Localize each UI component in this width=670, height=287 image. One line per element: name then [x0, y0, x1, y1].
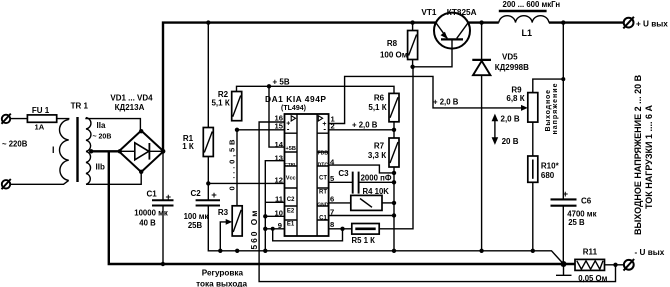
wire top rail right segment (VT1 collector to + output terminal): [468, 21, 499, 23]
svg-text:C2: C2: [191, 189, 202, 198]
transformer TR1 secondary winding IIa: [86, 118, 91, 152]
svg-text:1A: 1A: [35, 123, 45, 132]
svg-text:5,1 К: 5,1 К: [211, 99, 229, 108]
IC right label column: [316, 114, 318, 236]
wire pin 14 drop from +5B: [269, 86, 285, 147]
svg-text:DTC: DTC: [318, 163, 329, 169]
potentiometer R9: [528, 93, 538, 123]
node bridge right corner: [161, 149, 166, 154]
node bridge bottom corner: [139, 170, 143, 174]
R9 wiper arrowhead: [521, 105, 528, 111]
wire VD5 anode down to line A: [481, 75, 483, 251]
node bridge left corner: [118, 149, 122, 153]
wire pin 8 to R5: [329, 228, 352, 230]
svg-text:напряжение: напряжение: [552, 83, 559, 134]
wire R8 bottom stub: [412, 60, 414, 67]
svg-text:E1: E1: [287, 222, 295, 228]
wire R9 top tap to feedback line: [533, 79, 564, 93]
node C1 bottom on minus rail: [161, 262, 165, 266]
wire R10 bottom to line A: [532, 182, 534, 251]
svg-text:Vcc: Vcc: [286, 175, 296, 181]
node R11 right / output sense: [613, 263, 617, 267]
svg-text:+: +: [211, 190, 217, 201]
svg-text:FU 1: FU 1: [32, 106, 50, 115]
resistor R6: [389, 93, 399, 121]
diode bridge VD1-VD4 diamond: [119, 131, 164, 172]
svg-text:C1: C1: [319, 215, 327, 221]
wire input top to fuse: [10, 118, 27, 120]
wire R2 bottom down to R3 top: [236, 130, 238, 206]
svg-text:100 Ом: 100 Ом: [380, 50, 408, 59]
wire pin 9 to bus: [265, 228, 284, 230]
svg-text:~ 220В: ~ 220В: [2, 139, 28, 148]
node R2 bottom / pin15: [235, 128, 239, 132]
svg-text:1 К: 1 К: [182, 142, 194, 151]
svg-text:680: 680: [541, 171, 555, 180]
svg-text:14: 14: [275, 140, 284, 149]
svg-text:GND: GND: [317, 202, 329, 208]
capacitor C1: [152, 200, 174, 205]
wire C3 right plate to ground bus: [359, 181, 394, 183]
terminal output minus: [624, 259, 635, 271]
svg-text:ТОК НАГРУЗКИ 1 .... 6 А: ТОК НАГРУЗКИ 1 .... 6 А: [644, 105, 654, 209]
svg-text:5,1 К: 5,1 К: [368, 103, 386, 112]
wire pin 1 up over to R9 wiper: [329, 76, 524, 123]
svg-text:R8: R8: [387, 39, 398, 48]
svg-text:(TL494): (TL494): [281, 105, 306, 112]
wire VD5 cathode from rail: [481, 23, 483, 60]
wire R5 right to VT1 base line: [379, 67, 413, 229]
svg-text:6: 6: [330, 195, 334, 204]
svg-text:3,3 К: 3,3 К: [368, 151, 386, 160]
svg-text:Регуровка: Регуровка: [202, 268, 244, 277]
wire pin 5 to C3: [329, 181, 352, 183]
svg-text:10000 мк: 10000 мк: [134, 209, 168, 218]
node pin10 bus: [263, 214, 267, 218]
IC pin numbers right: [330, 115, 336, 230]
node top rail R1 tap: [206, 20, 210, 24]
svg-text:+ 2,0 В: + 2,0 В: [352, 121, 378, 130]
wire base junction to VT1 base: [413, 49, 452, 67]
svg-text:CTRL: CTRL: [285, 162, 297, 167]
svg-text:10: 10: [275, 209, 283, 218]
svg-text:R7: R7: [374, 142, 385, 151]
wire bottom minus rail (center tap down and across to R11): [92, 150, 120, 152]
node top rail VD5 tap: [479, 20, 483, 24]
wire pin 4 to ground bus: [329, 165, 394, 173]
capacitor C2: [196, 200, 220, 205]
wire C6 bottom to main junction: [562, 206, 564, 264]
wire IIa top to bridge AC1: [86, 118, 140, 130]
wire pin 2 to R6/R7 divider: [329, 129, 394, 131]
svg-text:E2: E2: [287, 209, 295, 215]
terminal output plus: [623, 17, 634, 29]
svg-text:9: 9: [278, 221, 282, 230]
svg-text:C3: C3: [338, 169, 349, 178]
node U loop right on pin8 wire: [340, 227, 344, 231]
shunt resistor R11: [575, 259, 605, 270]
node R4 ground: [392, 201, 396, 205]
node U loop left: [271, 227, 275, 231]
svg-text:+ U вых: + U вых: [636, 19, 668, 28]
svg-text:+ 2,0 В: + 2,0 В: [433, 98, 459, 107]
svg-text:2000 пФ: 2000 пФ: [361, 174, 392, 183]
svg-text:R4 10K: R4 10K: [363, 187, 390, 196]
wire C2 top stub: [207, 183, 209, 200]
svg-text:R5 1 К: R5 1 К: [352, 236, 376, 245]
transformer TR1 secondary winding IIb: [86, 151, 91, 184]
IC left cell labels: [285, 146, 297, 228]
svg-text:+: +: [166, 192, 172, 203]
svg-text:6,8 К: 6,8 К: [506, 94, 524, 103]
node pin7 ground: [392, 213, 396, 217]
node R7 bottom / pin4: [392, 171, 396, 175]
svg-text:R3: R3: [218, 208, 229, 217]
svg-text:C2: C2: [287, 197, 295, 203]
transformer TR1 primary winding I: [60, 120, 69, 181]
node line A IC ground bus: [392, 249, 396, 253]
IC comparator symbols: [286, 116, 326, 134]
IC cell dividers: [285, 133, 329, 220]
wire top rail after L1: [549, 21, 624, 23]
svg-text:IIa: IIa: [97, 121, 106, 130]
svg-text:20 В: 20 В: [502, 137, 519, 146]
svg-text:I: I: [52, 145, 55, 155]
wire top rail left segment (bridge + to VT1 emitter): [163, 23, 436, 152]
node +5B pin14 tap: [267, 84, 271, 88]
resistor R4: [351, 195, 382, 210]
svg-text:-: -: [287, 124, 290, 133]
wire pin 10 to bus: [265, 215, 284, 217]
IC left label column: [296, 114, 298, 236]
svg-text:TR 1: TR 1: [71, 102, 89, 111]
svg-text:25 В: 25 В: [568, 218, 585, 227]
transformer TR1 core: [76, 117, 78, 182]
voltage range double arrow: [492, 114, 499, 145]
wire fuse to primary top: [57, 119, 69, 120]
svg-text:R6: R6: [374, 94, 385, 103]
node top rail feedback/C6 tap: [561, 20, 565, 24]
svg-text:VD1 ... VD4: VD1 ... VD4: [110, 94, 153, 103]
svg-text:7: 7: [330, 207, 334, 216]
terminal input bottom: [2, 179, 11, 189]
svg-text:200 ... 600 мкГн: 200 ... 600 мкГн: [502, 0, 560, 9]
wire pin 6 to R4: [329, 202, 351, 204]
svg-text:-: -: [323, 125, 326, 134]
svg-text:КТ825А: КТ825А: [447, 8, 477, 17]
svg-text:25В: 25В: [188, 221, 203, 230]
wire pin 15 to R2 bottom: [237, 129, 285, 131]
inductor L1: [499, 11, 549, 23]
wire R1 bottom to Vcc node: [207, 157, 209, 184]
node line A R10 bottom: [531, 249, 535, 253]
diode VD5 KD2998V: [472, 60, 491, 75]
IC right cell labels: [317, 151, 329, 222]
svg-text:ВЫХОДНОЕ НАПРЯЖЕНИЕ 2 ... 20: ВЫХОДНОЕ НАПРЯЖЕНИЕ 2 ... 20 В: [633, 74, 643, 235]
svg-text:тока выхода: тока выхода: [196, 280, 247, 287]
svg-text:C6: C6: [581, 196, 592, 205]
svg-text:100 мк: 100 мк: [184, 212, 209, 221]
svg-text:13: 13: [275, 153, 283, 162]
resistor R7: [389, 138, 399, 167]
svg-text:+5B: +5B: [285, 146, 295, 152]
svg-text:+ 5В: + 5В: [273, 78, 290, 87]
svg-text:+: +: [563, 189, 569, 200]
transistor VT1 KT825A: [434, 13, 470, 49]
wire minus rail down and across: [109, 151, 575, 264]
node secondary center tap: [89, 149, 93, 153]
wire input bottom to primary: [10, 180, 68, 184]
wire U loop from pin9 wire to pin8 wire under IC: [273, 229, 343, 241]
svg-text:11: 11: [275, 195, 284, 204]
node R9 tap on feedback line: [561, 77, 565, 81]
svg-text:VD5: VD5: [502, 53, 518, 62]
svg-text:VT1: VT1: [421, 8, 436, 17]
wire IIb bottom to bridge AC2: [86, 174, 141, 185]
svg-text:~ 20В: ~ 20В: [93, 134, 112, 141]
node top rail R8 tap: [410, 20, 414, 24]
node pin9 bus: [263, 227, 267, 231]
bridge inner diode symbol: [120, 143, 163, 160]
fuse FU1: [27, 115, 56, 122]
node line A pin13 bus: [263, 249, 267, 253]
wire R9 bottom to R10 top: [532, 122, 534, 156]
svg-text:560 Ом: 560 Ом: [249, 211, 259, 250]
resistor R2: [232, 92, 242, 121]
svg-text:R10*: R10*: [541, 161, 560, 170]
svg-text:0,05 Ом: 0,05 Ом: [578, 274, 607, 283]
wire R3 wiper arrow from line A: [220, 219, 232, 251]
wire ground bus below R7: [393, 167, 395, 251]
wire R8 top stub: [412, 23, 414, 31]
node R1/C2/Vcc junction: [206, 181, 210, 185]
svg-text:12: 12: [275, 176, 283, 185]
svg-text:CT: CT: [319, 175, 327, 181]
svg-text:FDB: FDB: [318, 151, 329, 157]
wire C1 bottom to minus rail: [162, 206, 164, 265]
resistor R5: [352, 224, 379, 235]
svg-text:L1: L1: [522, 28, 533, 38]
ground stub below main junction: [556, 264, 572, 275]
wire current sense line from pin 16 down and right to R11 output node: [259, 122, 615, 282]
svg-text:C1: C1: [147, 189, 158, 198]
node line A R3 wiper: [218, 249, 222, 253]
resistor R3 (adjustable): [232, 206, 242, 236]
IC pin numbers left: [275, 113, 284, 230]
svg-text:8: 8: [330, 220, 334, 229]
svg-text:DA1 KIA 494P: DA1 KIA 494P: [265, 94, 326, 104]
wire R1 line from top rail: [207, 23, 209, 128]
wire feedback from top rail down to C6 top: [562, 23, 564, 200]
svg-text:2,0 В: 2,0 В: [501, 114, 520, 123]
resistor R1: [203, 128, 213, 157]
svg-text:IIb: IIb: [96, 163, 105, 172]
wire bridge plus corner down to C1: [162, 151, 164, 200]
resistor R8: [408, 31, 418, 60]
svg-text:15: 15: [275, 122, 284, 131]
node R8 bottom / base junction: [410, 65, 414, 69]
wire pin 13 bus down line: [265, 161, 284, 251]
capacitor C6: [551, 199, 577, 205]
terminal input top: [2, 114, 11, 124]
node bridge top corner: [139, 129, 143, 133]
wire pin 12 Vcc to junction: [208, 182, 284, 184]
resistor R10: [528, 156, 538, 182]
svg-text:2: 2: [331, 122, 335, 131]
node C3 ground: [392, 180, 396, 184]
wire signal ground line A (from C2 bottom to diagonal into main junction): [208, 206, 563, 265]
wire R6 bottom to R7 top: [393, 122, 395, 138]
node line A R3 bottom: [235, 249, 239, 253]
wire pin 11 to bus: [265, 201, 284, 203]
wire pin 7 GND to ground bus: [329, 215, 394, 217]
node R6/R7 junction: [392, 128, 396, 132]
node line A VD5 anode: [479, 249, 483, 253]
wire R11 right to - output terminal: [605, 264, 624, 266]
svg-text:R11: R11: [583, 247, 598, 256]
wire R4 right to ground bus: [382, 202, 394, 204]
svg-text:КД213А: КД213А: [115, 103, 145, 112]
svg-text:40 В: 40 В: [139, 219, 156, 228]
svg-text:- U вых: - U вых: [635, 248, 665, 257]
IC DA1 KIA494P outer box: [285, 114, 329, 236]
capacitor C3: [353, 172, 359, 194]
node main junction C6/R11/minus rail: [561, 261, 567, 267]
svg-text:КД2998В: КД2998В: [495, 63, 529, 72]
svg-text:RT: RT: [319, 190, 327, 196]
wire +5B rail from R2 top to R6 top: [237, 86, 395, 93]
